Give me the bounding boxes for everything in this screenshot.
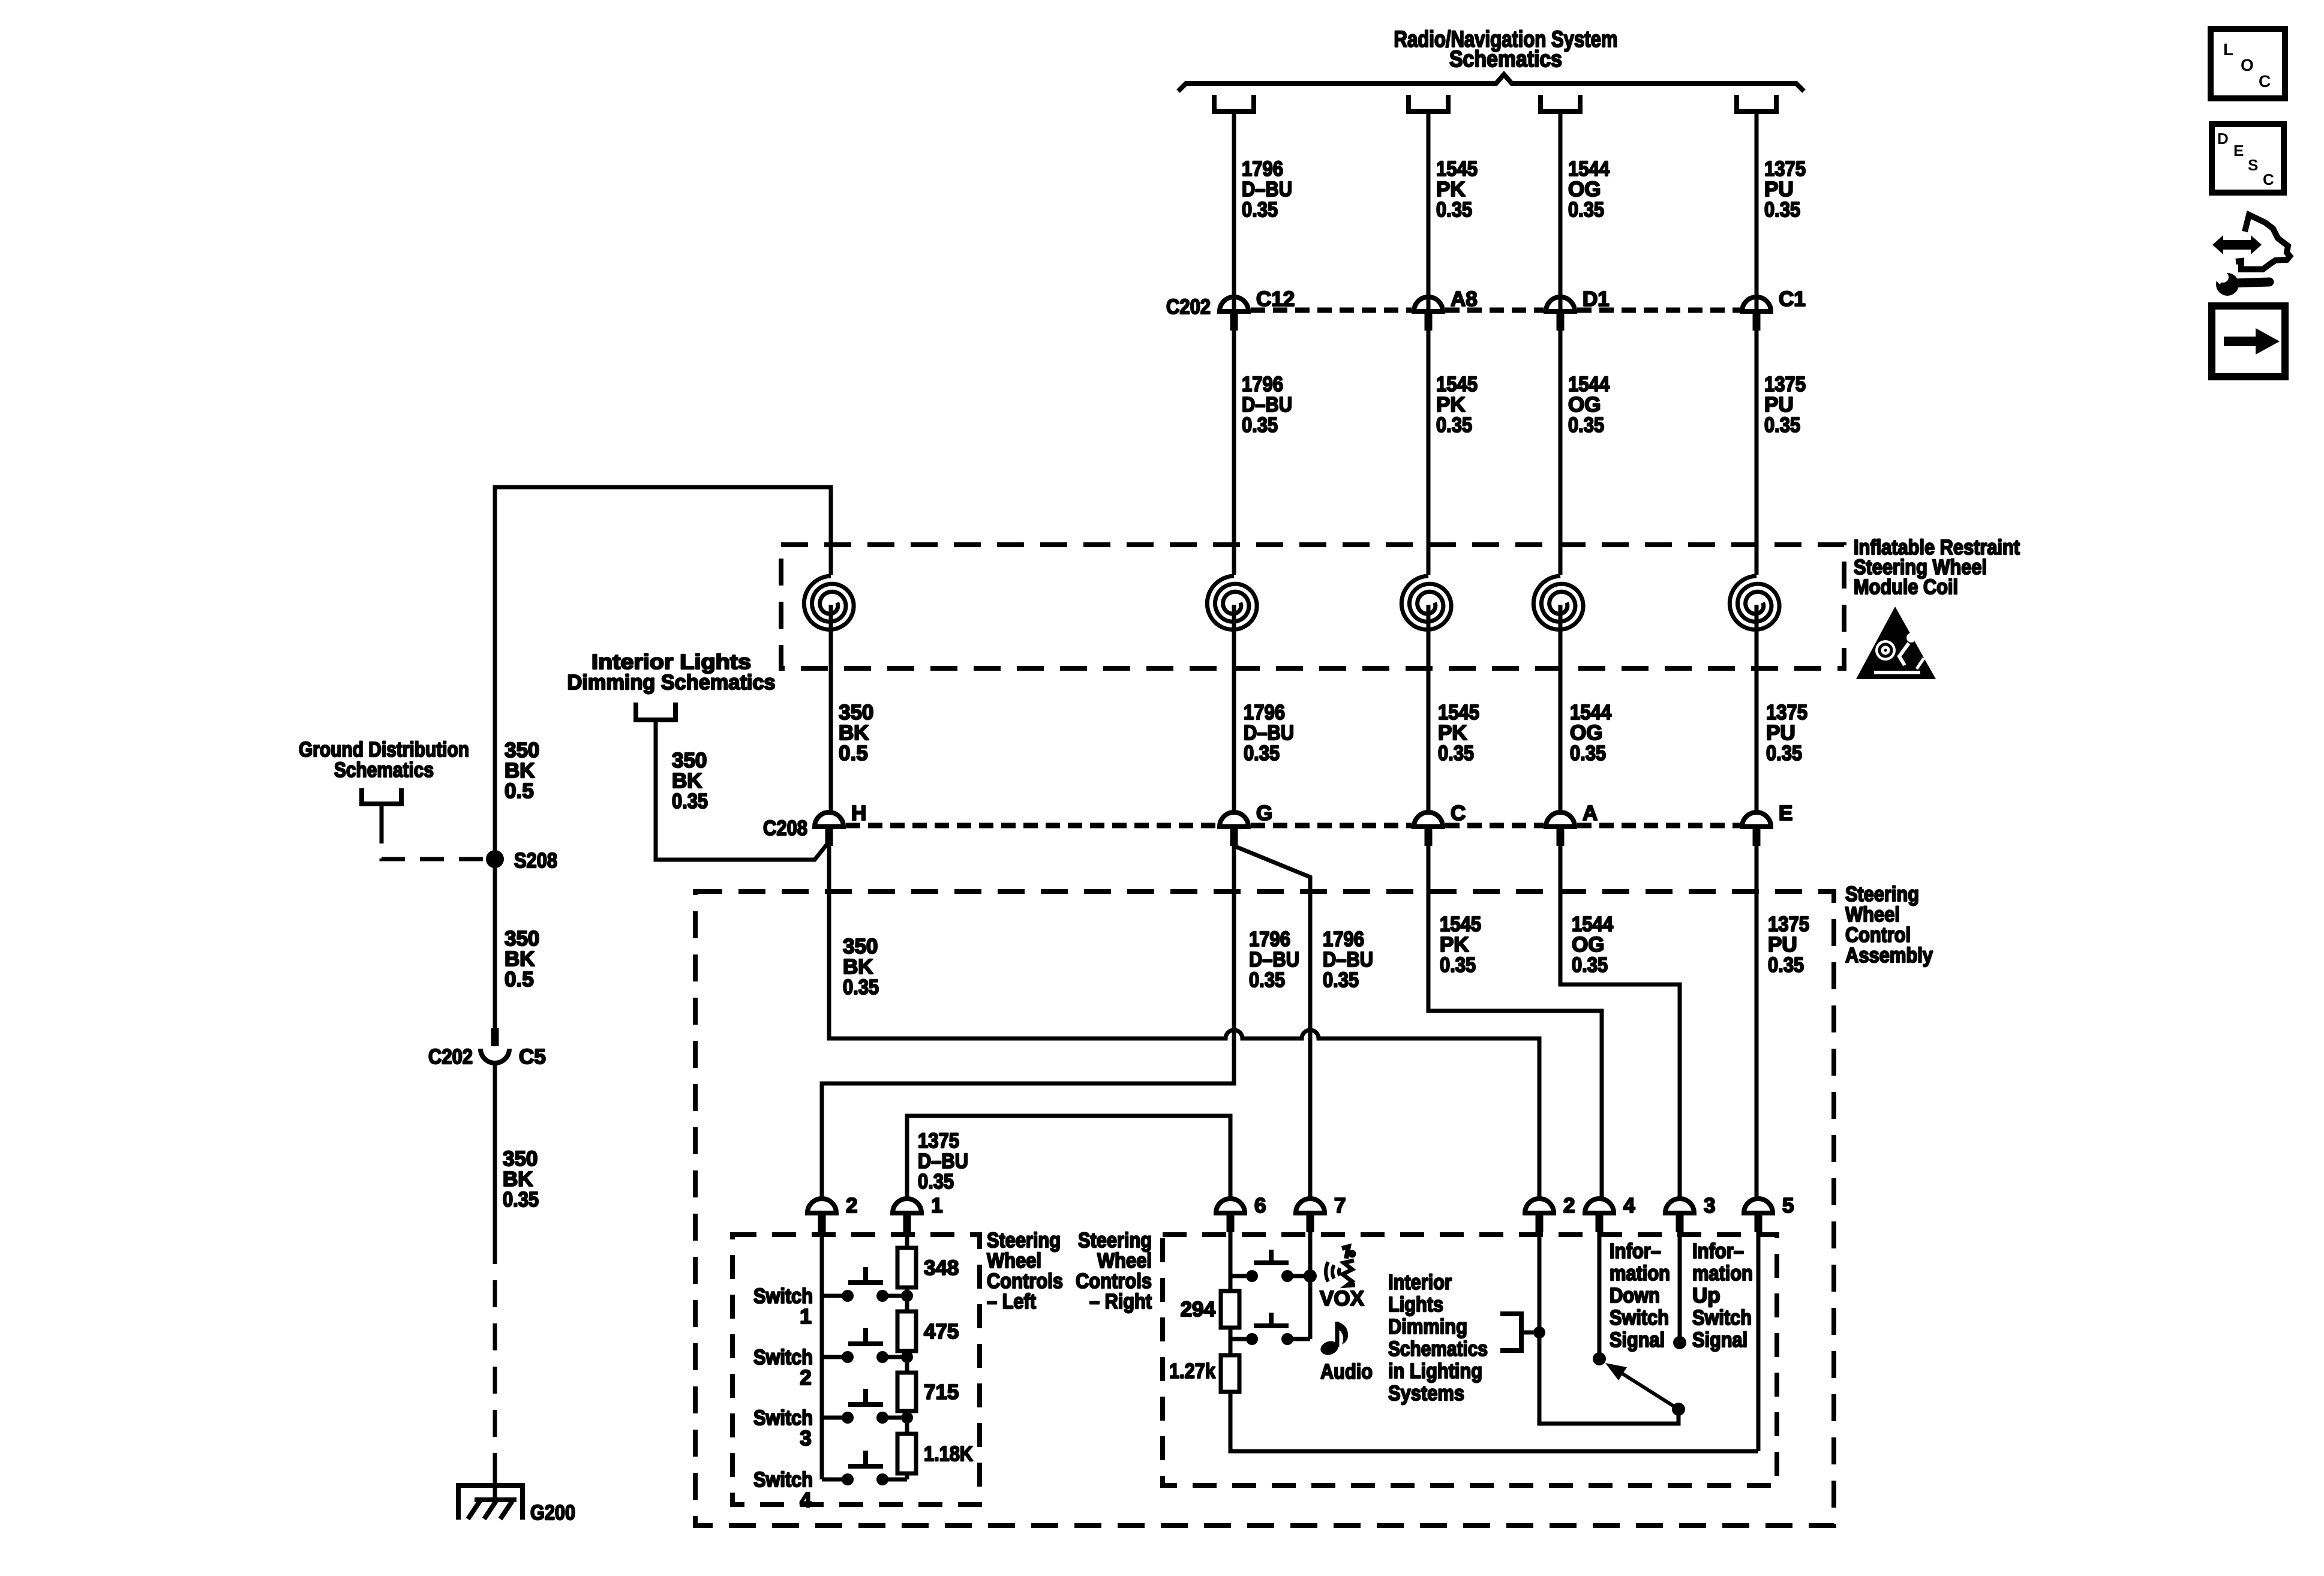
svg-text:0.5: 0.5	[839, 742, 868, 765]
dashed box: Steering Wheel Controls - Right	[1163, 1235, 1777, 1485]
svg-text:C202: C202	[1166, 295, 1211, 319]
svg-text:Signal: Signal	[1610, 1328, 1665, 1352]
bracket to Interior Lights Dimming Schematics	[1500, 1314, 1539, 1350]
wire 1545 PK from C208 C to pin 4	[1428, 846, 1602, 1211]
svg-text:D1: D1	[1583, 287, 1610, 311]
off-page connector symbol 1 (to Radio/Navigation)	[1214, 95, 1254, 112]
label 1545 PK (above C208)	[1438, 701, 1479, 765]
wire 1375 D-BU from pin 1 to pin 6	[907, 1116, 1230, 1211]
title: Radio/Navigation System Schematics	[1394, 27, 1618, 72]
pin number 6	[1254, 1194, 1266, 1217]
svg-text:Systems: Systems	[1388, 1382, 1464, 1405]
svg-text:O: O	[2241, 56, 2254, 74]
svg-text:0.35: 0.35	[1242, 413, 1278, 437]
svg-text:Down: Down	[1610, 1284, 1660, 1307]
svg-text:3: 3	[1704, 1194, 1715, 1217]
svg-text:0.35: 0.35	[503, 1188, 539, 1211]
wire 1545 PK 0.35 from top connector through C202 to coil	[1427, 112, 1431, 575]
wire 1375 PU from C208 E to pin 5	[1755, 846, 1759, 1211]
label Information Up Switch Signal	[1692, 1239, 1753, 1352]
svg-text:0.35: 0.35	[1436, 198, 1472, 221]
VOX switch (pushbutton)	[1230, 1250, 1310, 1282]
svg-text:0.35: 0.35	[1572, 953, 1608, 977]
label Information Down Switch Signal	[1610, 1239, 1670, 1352]
switch assembly pin 4 terminal	[1585, 1199, 1614, 1232]
resistor value label 1.27k	[1169, 1359, 1215, 1383]
connector C208 pin C terminal	[1414, 812, 1443, 846]
connector C208 dashed row	[846, 823, 1740, 828]
svg-text:H: H	[851, 801, 866, 825]
LOC icon box	[2211, 29, 2285, 98]
svg-text:4: 4	[800, 1488, 812, 1512]
connector C208 pin E terminal	[1742, 812, 1771, 846]
pin 7 wire	[1304, 1232, 1317, 1339]
wire 1544 OG from C208 A to pin 3	[1560, 846, 1680, 1211]
svg-text:294: 294	[1181, 1298, 1216, 1321]
label Interior Lights Dimming Schematics in Lighting Systems	[1388, 1271, 1488, 1405]
label 1796 D-BU 0.35 (to pin 7)	[1323, 927, 1373, 992]
svg-text:mation: mation	[1692, 1262, 1753, 1285]
switch assembly pin 5 terminal	[1744, 1199, 1773, 1232]
label G200	[530, 1501, 575, 1524]
svg-text:0.35: 0.35	[1244, 742, 1280, 765]
switch assembly pin 3 terminal	[1665, 1199, 1694, 1232]
svg-text:2: 2	[800, 1366, 811, 1389]
wire 350 BK from C208 H to right box pin 2 (with hops)	[829, 846, 1539, 1211]
svg-text:0.35: 0.35	[672, 789, 708, 813]
connector C208 pin G terminal	[1220, 812, 1248, 846]
label Switch 1	[753, 1284, 813, 1328]
svg-text:1.18K: 1.18K	[924, 1442, 973, 1466]
switch assembly pin 6 terminal	[1216, 1199, 1245, 1232]
svg-text:Switch: Switch	[1610, 1306, 1669, 1329]
svg-text:A8: A8	[1451, 287, 1478, 311]
Interior Lights bracket symbol	[636, 703, 675, 720]
svg-text:3: 3	[800, 1427, 811, 1450]
resistor value label 475	[924, 1320, 959, 1343]
svg-text:Schematics: Schematics	[1388, 1337, 1488, 1361]
pin number 1	[931, 1194, 942, 1217]
svg-text:0.35: 0.35	[1242, 198, 1278, 221]
svg-text:C: C	[1451, 801, 1466, 825]
svg-text:Interior: Interior	[1388, 1271, 1452, 1294]
label 1375 PU (above C208)	[1766, 701, 1807, 765]
svg-text:in Lighting: in Lighting	[1388, 1359, 1482, 1383]
resistor ladder 348/475/715/1.18K	[897, 1232, 916, 1479]
svg-text:0.35: 0.35	[1440, 953, 1476, 977]
label 1375 PU 0.35 (in assembly)	[1768, 912, 1809, 977]
svg-text:Assembly: Assembly	[1845, 944, 1933, 967]
DESC icon box	[2212, 124, 2284, 193]
coil 4 (inflatable restraint module coil)	[1533, 576, 1583, 824]
connector C208 label	[763, 816, 807, 840]
svg-text:Audio: Audio	[1320, 1360, 1373, 1383]
svg-text:E: E	[2233, 142, 2244, 160]
svg-text:Module Coil: Module Coil	[1854, 575, 1958, 599]
label 350 BK 0.35 (interior lights wire)	[672, 749, 708, 813]
svg-text:0.35: 0.35	[1768, 953, 1804, 977]
ground G200 symbol	[458, 1485, 523, 1520]
Ground Distribution bracket symbol	[362, 788, 401, 819]
coil 3 (inflatable restraint module coil)	[1401, 576, 1451, 824]
svg-text:Switch: Switch	[1692, 1306, 1752, 1329]
switch 4 (pushbutton contacts)	[822, 1451, 907, 1485]
dashed lead from Ground Distribution bracket to S208	[382, 819, 484, 859]
dashed box: Steering Wheel Control Assembly	[695, 891, 1834, 1526]
svg-text:L: L	[2223, 40, 2233, 59]
svg-text:Up: Up	[1692, 1284, 1721, 1307]
pin label G	[1256, 801, 1272, 825]
svg-text:0.35: 0.35	[1764, 198, 1800, 221]
label 350 BK 0.35 (H wire in assembly)	[843, 935, 879, 999]
svg-text:Signal: Signal	[1692, 1328, 1747, 1352]
connector C208 pin A terminal	[1546, 812, 1575, 846]
pin 3 wire (Information Up contact)	[1673, 1232, 1686, 1349]
svg-text:Infor–: Infor–	[1692, 1239, 1744, 1263]
coil 5 (inflatable restraint module coil)	[1730, 576, 1779, 824]
svg-text:A: A	[1583, 801, 1598, 825]
svg-text:Dimming: Dimming	[1388, 1315, 1467, 1338]
svg-text:Lights: Lights	[1388, 1293, 1443, 1316]
svg-text:C5: C5	[519, 1045, 546, 1068]
svg-text:2: 2	[1563, 1194, 1575, 1217]
label 1796 D-BU 0.35 (to pin 2)	[1249, 927, 1299, 992]
svg-text:0.35: 0.35	[918, 1170, 954, 1193]
svg-text:1: 1	[800, 1305, 811, 1328]
svg-text:0.35: 0.35	[1570, 742, 1606, 765]
connector C202 C5 terminal	[481, 1028, 509, 1063]
label 1544 OG 0.35 (in assembly)	[1572, 912, 1613, 977]
pin number 2	[1563, 1194, 1575, 1217]
svg-text:475: 475	[924, 1320, 959, 1343]
off-page connector symbol 3 (to Radio/Navigation)	[1541, 95, 1580, 112]
pin label E	[1779, 801, 1792, 825]
svg-text:1: 1	[931, 1194, 942, 1217]
off-page connector symbol 2 (to Radio/Navigation)	[1409, 95, 1448, 112]
svg-text:0.35: 0.35	[1436, 413, 1472, 437]
wire 350 BK from coil1 top to left rail and down to C202 C5	[495, 487, 831, 1028]
service/repair icon (vehicle with arrow and wrench)	[2212, 215, 2290, 296]
pin number 5	[1782, 1194, 1794, 1217]
wire 1796 D-BU from C208 G to left box pin 2	[822, 846, 1234, 1211]
pin label C12	[1256, 287, 1295, 311]
pin label A8	[1451, 287, 1478, 311]
svg-text:mation: mation	[1610, 1262, 1670, 1285]
pin 4 wire (Information Down contact)	[1593, 1232, 1606, 1365]
svg-text:348: 348	[924, 1256, 959, 1280]
switch 3 (pushbutton contacts)	[822, 1389, 913, 1424]
label Switch 2	[753, 1346, 813, 1389]
svg-text:2: 2	[846, 1194, 857, 1217]
VOX icon (voice)	[1326, 1247, 1356, 1286]
pin label A	[1583, 801, 1598, 825]
svg-text:5: 5	[1782, 1194, 1794, 1217]
switch assembly pin 2 terminal	[807, 1199, 836, 1232]
connector C202 dashed row	[1251, 308, 1740, 313]
svg-text:C12: C12	[1256, 287, 1295, 311]
selector switch arm (information up/down)	[1605, 1363, 1679, 1409]
label Steering Wheel Control Assembly	[1845, 882, 1933, 967]
svg-text:6: 6	[1254, 1194, 1266, 1217]
svg-text:0.35: 0.35	[1568, 413, 1604, 437]
pin number 2	[846, 1194, 857, 1217]
connector C202 C5 labels	[428, 1045, 546, 1068]
svg-text:0.35: 0.35	[1766, 742, 1802, 765]
resistor value label 715	[924, 1380, 959, 1404]
svg-text:C1: C1	[1779, 287, 1806, 311]
wire 1796 D-BU 0.35 from top connector through C202 to coil	[1232, 112, 1236, 575]
svg-text:0.35: 0.35	[1764, 413, 1800, 437]
label Steering Wheel Controls - Right	[1076, 1229, 1152, 1313]
svg-text:0.35: 0.35	[1568, 198, 1604, 221]
label 350 BK 0.5 (below S208)	[505, 927, 539, 991]
svg-text:7: 7	[1334, 1194, 1346, 1217]
Audio switch (pushbutton)	[1230, 1313, 1310, 1345]
off-page connector symbol 4 (to Radio/Navigation)	[1737, 95, 1776, 112]
switch assembly pin 7 terminal	[1296, 1199, 1325, 1232]
connector C202 pin D1 terminal	[1546, 297, 1575, 331]
switch 1 (pushbutton contacts)	[822, 1267, 913, 1302]
pin label C	[1451, 801, 1466, 825]
svg-text:715: 715	[924, 1380, 959, 1404]
svg-text:0.5: 0.5	[505, 968, 534, 991]
label 1796 D-BU 0.35 (below C202)	[1242, 373, 1292, 437]
connector C202 pin C12 terminal	[1220, 297, 1248, 331]
Audio icon (musical note)	[1319, 1322, 1348, 1357]
pin 6 wire and resistor chain 294 / 1.27k	[1221, 1232, 1758, 1451]
Interior Lights Dimming Schematics reference text	[568, 650, 776, 694]
pin number 7	[1334, 1194, 1346, 1217]
svg-text:D: D	[2217, 130, 2229, 148]
svg-text:G: G	[1256, 801, 1272, 825]
label 1545 PK 0.35 (in assembly)	[1440, 912, 1481, 977]
svg-text:0.35: 0.35	[1438, 742, 1474, 765]
wire 350 BK from Interior Lights bracket to H wire	[656, 720, 829, 860]
svg-text:S: S	[2248, 156, 2258, 174]
svg-text:Schematics: Schematics	[334, 758, 434, 782]
label 350 BK 0.5 (above C208)	[839, 701, 873, 765]
pin label C1	[1779, 287, 1806, 311]
wire 350 BK below C5	[493, 1063, 497, 1237]
svg-text:1.27k: 1.27k	[1169, 1359, 1215, 1383]
label 1544 OG 0.35 (below C202)	[1568, 373, 1610, 437]
wire 1375 PU 0.35 from top connector through C202 to coil	[1755, 112, 1759, 575]
svg-text:G200: G200	[530, 1501, 575, 1524]
label 1375 D-BU 0.35	[918, 1129, 968, 1193]
label 1375 PU 0.35 (above C202)	[1764, 157, 1806, 221]
svg-text:4: 4	[1623, 1194, 1635, 1217]
dashed wire 350 BK to G200	[493, 1237, 497, 1500]
pin number 4	[1623, 1194, 1635, 1217]
svg-text:0.35: 0.35	[1249, 968, 1285, 992]
svg-text:E: E	[1779, 801, 1792, 825]
switch 2 (pushbutton contacts)	[822, 1328, 913, 1363]
label VOX	[1320, 1287, 1365, 1310]
left rail wire (pin 2 common)	[820, 1232, 824, 1479]
pin number 3	[1704, 1194, 1715, 1217]
svg-text:– Left: – Left	[987, 1290, 1036, 1313]
switch assembly pin 1 terminal	[893, 1199, 921, 1232]
svg-text:C: C	[2263, 170, 2274, 188]
next-page arrow icon box	[2212, 306, 2285, 377]
svg-text:S208: S208	[514, 849, 557, 872]
label Switch 4	[753, 1468, 813, 1512]
connector C202 pin C1 terminal	[1742, 297, 1771, 331]
svg-text:0.35: 0.35	[843, 975, 879, 999]
svg-text:Infor–: Infor–	[1610, 1239, 1661, 1263]
label 1544 OG (above C208)	[1570, 701, 1611, 765]
label 1796 D-BU 0.35 (above C202)	[1242, 157, 1292, 221]
coil 2 (inflatable restraint module coil)	[1207, 576, 1257, 824]
pin 5 wire	[1756, 1232, 1761, 1451]
label Audio	[1320, 1360, 1373, 1383]
svg-text:0.35: 0.35	[1323, 968, 1359, 992]
label 1545 PK 0.35 (above C202)	[1436, 157, 1478, 221]
Ground Distribution Schematics reference text	[299, 738, 469, 782]
label 1796 D-BU (above C208)	[1244, 701, 1294, 765]
airbag warning triangle icon	[1856, 607, 1936, 679]
label Switch 3	[753, 1406, 813, 1450]
pin label H	[851, 801, 866, 825]
switch assembly pin 2 terminal	[1525, 1199, 1554, 1232]
svg-text:0.5: 0.5	[505, 779, 534, 803]
svg-text:C: C	[2259, 72, 2271, 91]
splice S208	[486, 849, 557, 872]
svg-text:VOX: VOX	[1320, 1287, 1365, 1310]
dashed box: Steering Wheel Controls - Left	[732, 1235, 980, 1505]
connector C202 pin A8 terminal	[1414, 297, 1443, 331]
label Steering Wheel Controls - Left	[987, 1229, 1063, 1313]
svg-text:C202: C202	[428, 1045, 473, 1068]
brace to Radio/Navigation System Schematics	[1178, 74, 1804, 91]
wire 1544 OG 0.35 from top connector through C202 to coil	[1559, 112, 1563, 575]
resistor value label 348	[924, 1256, 959, 1280]
coil 1 (inflatable restraint module coil)	[804, 576, 854, 824]
svg-text:Dimming Schematics: Dimming Schematics	[568, 671, 776, 694]
label 1545 PK 0.35 (below C202)	[1436, 373, 1478, 437]
svg-text:– Right: – Right	[1089, 1290, 1152, 1313]
svg-text:Schematics: Schematics	[1449, 47, 1562, 72]
connector C202 label	[1166, 295, 1211, 319]
label Inflatable Restraint Steering Wheel Module Coil	[1854, 536, 2020, 599]
label 1375 PU 0.35 (below C202)	[1764, 373, 1806, 437]
pin 2 (right) wire to switch pivot	[1533, 1232, 1685, 1424]
label 350 BK 0.5 (above S208)	[505, 739, 539, 803]
connector C208 pin H terminal	[815, 812, 843, 846]
resistor value label 1.18K	[924, 1442, 973, 1466]
label 1544 OG 0.35 (above C202)	[1568, 157, 1610, 221]
dashed box: Inflatable Restraint Steering Wheel Module Coil	[781, 545, 1844, 668]
pin label D1	[1583, 287, 1610, 311]
resistor value label 294	[1181, 1298, 1216, 1321]
svg-text:C208: C208	[763, 816, 807, 840]
wire 1796 D-BU from C208 G to pin 7 (diagonal)	[1234, 846, 1310, 1211]
label 350 BK 0.35 (left rail)	[503, 1147, 539, 1211]
